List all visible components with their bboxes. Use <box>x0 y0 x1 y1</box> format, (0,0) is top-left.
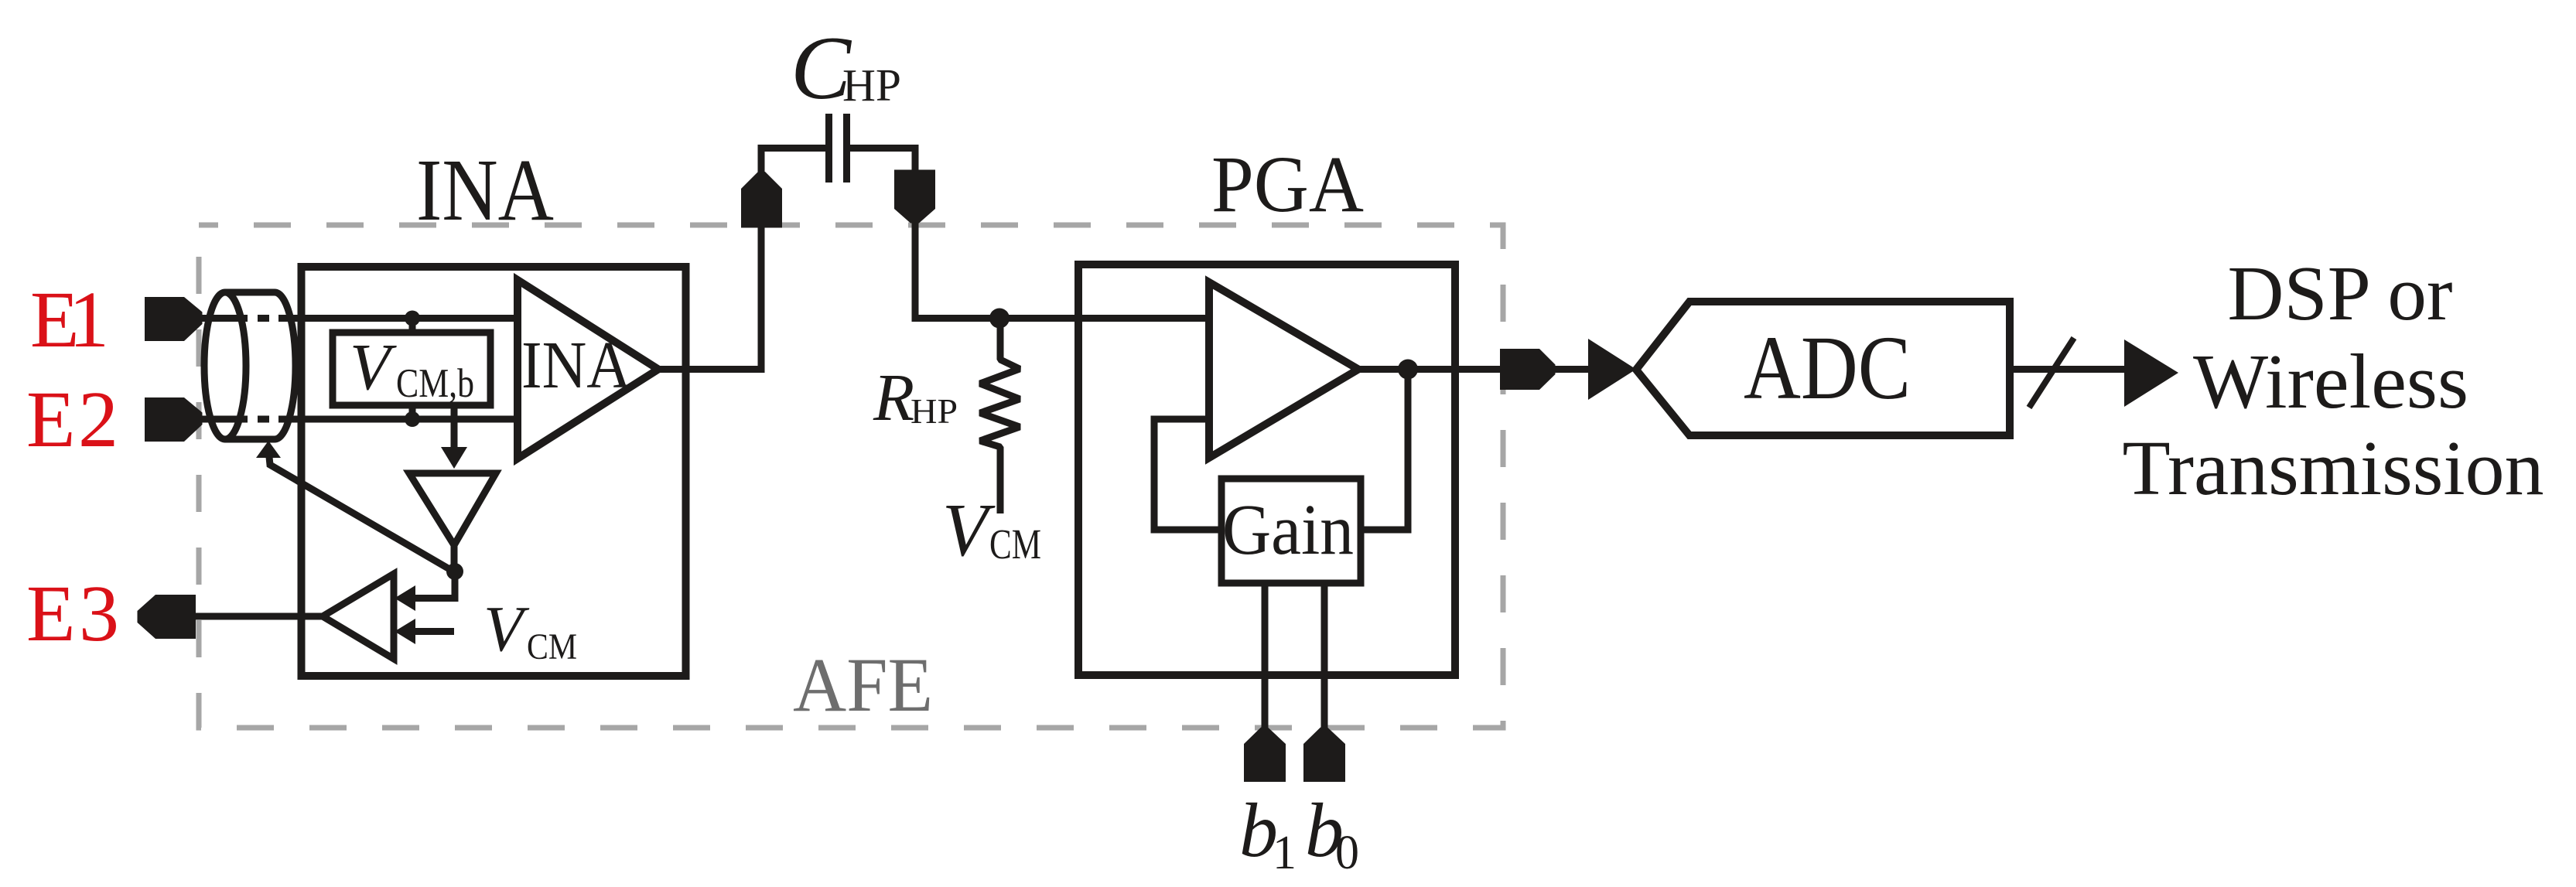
svg-text:ADC: ADC <box>1744 317 1911 418</box>
svg-text:HP: HP <box>842 60 901 111</box>
svg-text:HP: HP <box>910 391 958 431</box>
svg-text:E3: E3 <box>26 569 119 658</box>
svg-text:V: V <box>942 489 996 571</box>
svg-text:1: 1 <box>1273 827 1297 879</box>
svg-text:Transmission: Transmission <box>2123 425 2544 511</box>
svg-text:R: R <box>873 360 914 435</box>
svg-text:E2: E2 <box>26 375 118 464</box>
svg-text:INA: INA <box>416 141 554 239</box>
svg-text:DSP or: DSP or <box>2228 250 2453 336</box>
svg-text:Wireless: Wireless <box>2193 338 2468 425</box>
svg-text:INA: INA <box>521 327 631 402</box>
svg-text:V: V <box>483 593 530 665</box>
svg-text:0: 0 <box>1335 827 1359 879</box>
svg-text:E1: E1 <box>30 275 109 364</box>
svg-text:AFE: AFE <box>793 642 933 728</box>
svg-text:PGA: PGA <box>1211 140 1364 229</box>
svg-text:V: V <box>350 329 397 404</box>
svg-text:CM: CM <box>989 520 1041 568</box>
svg-text:CM,b: CM,b <box>396 361 474 406</box>
svg-text:CM: CM <box>527 626 577 667</box>
svg-text:Gain: Gain <box>1222 490 1354 570</box>
